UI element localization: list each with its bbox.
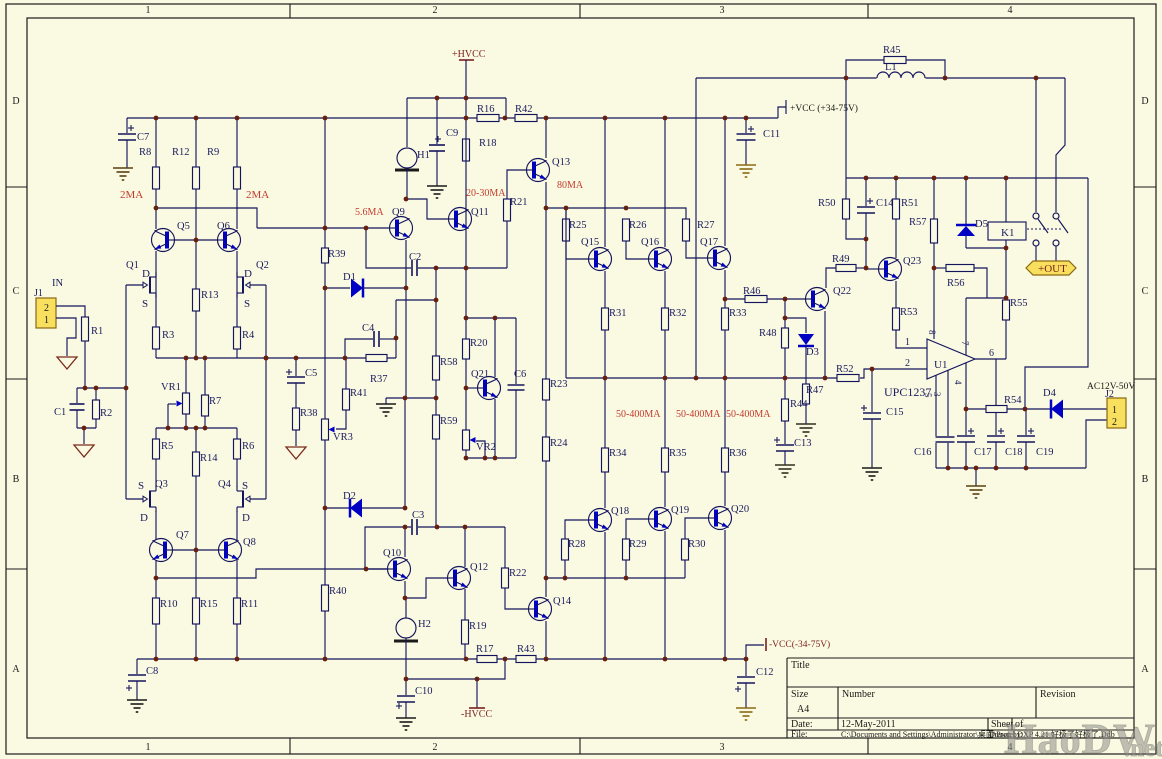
svg-text:C5: C5 xyxy=(305,368,317,379)
svg-text:R27: R27 xyxy=(697,220,715,231)
svg-text:C4: C4 xyxy=(362,323,375,334)
svg-text:H1: H1 xyxy=(417,150,430,161)
svg-text:R48: R48 xyxy=(759,328,777,339)
svg-text:File:: File: xyxy=(791,729,808,739)
svg-text:2: 2 xyxy=(1112,417,1117,428)
svg-text:B: B xyxy=(1142,474,1149,485)
svg-text:2: 2 xyxy=(905,358,910,369)
svg-text:S: S xyxy=(242,480,248,492)
svg-text:R8: R8 xyxy=(139,147,151,158)
svg-text:+HVCC: +HVCC xyxy=(452,49,486,60)
svg-text:Q21: Q21 xyxy=(471,369,489,380)
svg-text:+VCC (+34-75V): +VCC (+34-75V) xyxy=(790,103,858,114)
svg-text:VR2: VR2 xyxy=(476,442,496,453)
svg-text:R19: R19 xyxy=(469,621,487,632)
svg-text:C: C xyxy=(1142,286,1149,297)
svg-text:L1: L1 xyxy=(885,62,897,73)
svg-text:Q14: Q14 xyxy=(553,596,572,607)
svg-text:Q11: Q11 xyxy=(471,207,489,218)
svg-text:R13: R13 xyxy=(201,290,219,301)
svg-text:R58: R58 xyxy=(440,357,458,368)
svg-text:R51: R51 xyxy=(901,198,919,209)
svg-text:Q15: Q15 xyxy=(581,237,599,248)
svg-text:R32: R32 xyxy=(669,308,687,319)
svg-text:R11: R11 xyxy=(241,599,258,610)
svg-text:Size: Size xyxy=(791,689,809,700)
svg-text:50-400MA: 50-400MA xyxy=(726,409,771,420)
svg-text:R18: R18 xyxy=(479,138,497,149)
svg-text:5: 5 xyxy=(923,393,933,398)
svg-text:2MA: 2MA xyxy=(120,189,143,201)
svg-text:R26: R26 xyxy=(629,220,647,231)
svg-text:Q6: Q6 xyxy=(217,221,230,232)
svg-text:R45: R45 xyxy=(883,45,901,56)
svg-text:+OUT: +OUT xyxy=(1038,263,1067,275)
svg-text:R9: R9 xyxy=(207,147,219,158)
svg-text:A4: A4 xyxy=(797,704,809,715)
svg-text:-HVCC: -HVCC xyxy=(461,709,492,720)
svg-text:D2: D2 xyxy=(343,491,356,502)
svg-text:R21: R21 xyxy=(510,197,528,208)
svg-text:20-30MA: 20-30MA xyxy=(466,188,506,199)
svg-text:R6: R6 xyxy=(242,441,254,452)
svg-text:3: 3 xyxy=(720,742,725,753)
svg-text:D: D xyxy=(244,268,252,280)
svg-text:Number: Number xyxy=(842,689,875,700)
svg-text:2MA: 2MA xyxy=(246,189,269,201)
svg-text:3: 3 xyxy=(720,5,725,16)
svg-text:S: S xyxy=(142,298,148,310)
svg-text:R15: R15 xyxy=(200,599,218,610)
svg-text:D4: D4 xyxy=(1043,388,1057,399)
svg-text:VR1: VR1 xyxy=(161,382,181,393)
svg-text:R4: R4 xyxy=(242,330,255,341)
svg-text:R7: R7 xyxy=(209,396,221,407)
svg-text:R39: R39 xyxy=(328,249,346,260)
svg-text:R42: R42 xyxy=(515,104,533,115)
svg-text:Q4: Q4 xyxy=(218,479,232,490)
svg-text:R3: R3 xyxy=(162,330,174,341)
svg-text:R5: R5 xyxy=(161,441,173,452)
svg-text:J2: J2 xyxy=(1105,389,1114,400)
svg-text:R43: R43 xyxy=(517,644,535,655)
svg-text:C10: C10 xyxy=(415,686,433,697)
svg-text:VR3: VR3 xyxy=(333,432,353,443)
svg-text:Q1: Q1 xyxy=(126,260,139,271)
svg-text:R57: R57 xyxy=(909,217,927,228)
svg-text:R33: R33 xyxy=(729,308,747,319)
svg-text:R30: R30 xyxy=(688,539,706,550)
svg-text:C: C xyxy=(13,286,20,297)
svg-text:Q9: Q9 xyxy=(392,207,405,218)
svg-text:C13: C13 xyxy=(794,438,812,449)
svg-text:U1: U1 xyxy=(934,359,947,371)
svg-text:1: 1 xyxy=(905,337,910,348)
svg-text:R23: R23 xyxy=(550,379,568,390)
svg-text:Q19: Q19 xyxy=(671,505,689,516)
svg-text:Q23: Q23 xyxy=(903,256,921,267)
svg-text:C2: C2 xyxy=(409,252,421,263)
svg-text:C16: C16 xyxy=(914,447,932,458)
svg-text:C17: C17 xyxy=(974,447,992,458)
svg-text:C11: C11 xyxy=(763,129,780,140)
svg-text:R38: R38 xyxy=(300,408,318,419)
svg-text:R25: R25 xyxy=(569,220,587,231)
svg-text:R49: R49 xyxy=(832,254,850,265)
svg-text:C1: C1 xyxy=(54,407,66,418)
svg-text:2: 2 xyxy=(433,5,438,16)
svg-text:C9: C9 xyxy=(446,128,458,139)
svg-text:A: A xyxy=(1141,664,1149,675)
svg-text:R22: R22 xyxy=(509,568,527,579)
svg-text:8: 8 xyxy=(927,330,937,335)
svg-text:Q17: Q17 xyxy=(700,237,718,248)
svg-text:Q7: Q7 xyxy=(176,530,189,541)
svg-text:Q3: Q3 xyxy=(155,479,168,490)
svg-text:R59: R59 xyxy=(440,416,458,427)
svg-text:R14: R14 xyxy=(200,453,218,464)
svg-text:R40: R40 xyxy=(329,586,347,597)
svg-text:Q10: Q10 xyxy=(383,548,401,559)
svg-text:6: 6 xyxy=(989,348,994,359)
svg-text:IN: IN xyxy=(52,278,63,289)
svg-text:R36: R36 xyxy=(729,448,747,459)
svg-text:R10: R10 xyxy=(160,599,178,610)
svg-text:R37: R37 xyxy=(370,374,388,385)
svg-text:C3: C3 xyxy=(412,510,424,521)
svg-text:S: S xyxy=(138,480,144,492)
svg-text:R29: R29 xyxy=(629,539,647,550)
svg-text:Q22: Q22 xyxy=(833,286,851,297)
svg-text:C15: C15 xyxy=(886,407,904,418)
svg-text:R53: R53 xyxy=(900,307,918,318)
svg-text:C14: C14 xyxy=(876,198,894,209)
svg-text:R24: R24 xyxy=(550,438,568,449)
svg-text:Q12: Q12 xyxy=(470,562,488,573)
svg-text:D: D xyxy=(140,512,148,524)
svg-text:Q8: Q8 xyxy=(243,537,256,548)
svg-text:R55: R55 xyxy=(1010,298,1028,309)
svg-text:D1: D1 xyxy=(343,272,356,283)
svg-text:C7: C7 xyxy=(137,132,149,143)
svg-text:Q5: Q5 xyxy=(177,221,190,232)
svg-text:S: S xyxy=(244,298,250,310)
svg-text:R31: R31 xyxy=(609,308,627,319)
svg-text:R50: R50 xyxy=(818,198,836,209)
svg-text:R47: R47 xyxy=(806,385,824,396)
svg-text:5.6MA: 5.6MA xyxy=(355,207,384,218)
svg-text:D: D xyxy=(142,268,150,280)
svg-text:Title: Title xyxy=(791,660,810,671)
svg-text:4: 4 xyxy=(953,380,963,385)
svg-text:1: 1 xyxy=(146,742,151,753)
svg-text:50-400MA: 50-400MA xyxy=(616,409,661,420)
svg-text:7: 7 xyxy=(960,341,970,346)
svg-text:4: 4 xyxy=(1008,5,1013,16)
svg-text:R28: R28 xyxy=(568,539,586,550)
svg-text:R35: R35 xyxy=(669,448,687,459)
svg-text:D: D xyxy=(242,512,250,524)
svg-text:R41: R41 xyxy=(350,388,368,399)
svg-text:1: 1 xyxy=(1112,405,1117,416)
svg-text:Q13: Q13 xyxy=(552,157,570,168)
svg-text:R34: R34 xyxy=(609,448,627,459)
svg-text:D5: D5 xyxy=(975,219,988,230)
svg-text:J1: J1 xyxy=(34,288,43,299)
svg-text:R44: R44 xyxy=(790,399,808,410)
svg-text:R17: R17 xyxy=(476,644,494,655)
svg-text:Q2: Q2 xyxy=(256,260,269,271)
svg-text:1: 1 xyxy=(44,315,49,326)
svg-text:C12: C12 xyxy=(756,667,774,678)
svg-text:2: 2 xyxy=(433,742,438,753)
svg-text:R1: R1 xyxy=(91,326,103,337)
svg-text:C6: C6 xyxy=(514,369,526,380)
svg-text:Revision: Revision xyxy=(1040,689,1076,700)
svg-text:B: B xyxy=(13,474,20,485)
svg-text:R2: R2 xyxy=(100,408,112,419)
svg-text:R16: R16 xyxy=(477,104,495,115)
svg-text:12-May-2011: 12-May-2011 xyxy=(841,719,896,730)
svg-text:R12: R12 xyxy=(172,147,190,158)
svg-text:Q18: Q18 xyxy=(611,506,629,517)
svg-text:50-400MA: 50-400MA xyxy=(676,409,721,420)
svg-text:D: D xyxy=(1141,96,1148,107)
svg-text:R46: R46 xyxy=(743,286,761,297)
svg-text:80MA: 80MA xyxy=(557,180,584,191)
svg-text:C19: C19 xyxy=(1036,447,1054,458)
svg-text:D3: D3 xyxy=(806,347,819,358)
svg-text:1: 1 xyxy=(146,5,151,16)
svg-text:H2: H2 xyxy=(418,619,431,630)
svg-text:C8: C8 xyxy=(146,666,158,677)
svg-text:R54: R54 xyxy=(1004,395,1022,406)
svg-text:Q16: Q16 xyxy=(641,237,659,248)
svg-text:C18: C18 xyxy=(1005,447,1023,458)
svg-text:R52: R52 xyxy=(836,364,854,375)
svg-text:Q20: Q20 xyxy=(731,504,749,515)
svg-text:K1: K1 xyxy=(1001,227,1014,239)
svg-text:2: 2 xyxy=(44,303,49,314)
svg-text:R56: R56 xyxy=(947,278,965,289)
svg-text:.net: .net xyxy=(1124,735,1162,759)
svg-text:R20: R20 xyxy=(470,338,488,349)
svg-text:A: A xyxy=(12,664,20,675)
svg-text:-VCC(-34-75V): -VCC(-34-75V) xyxy=(769,639,830,650)
svg-text:D: D xyxy=(12,96,19,107)
